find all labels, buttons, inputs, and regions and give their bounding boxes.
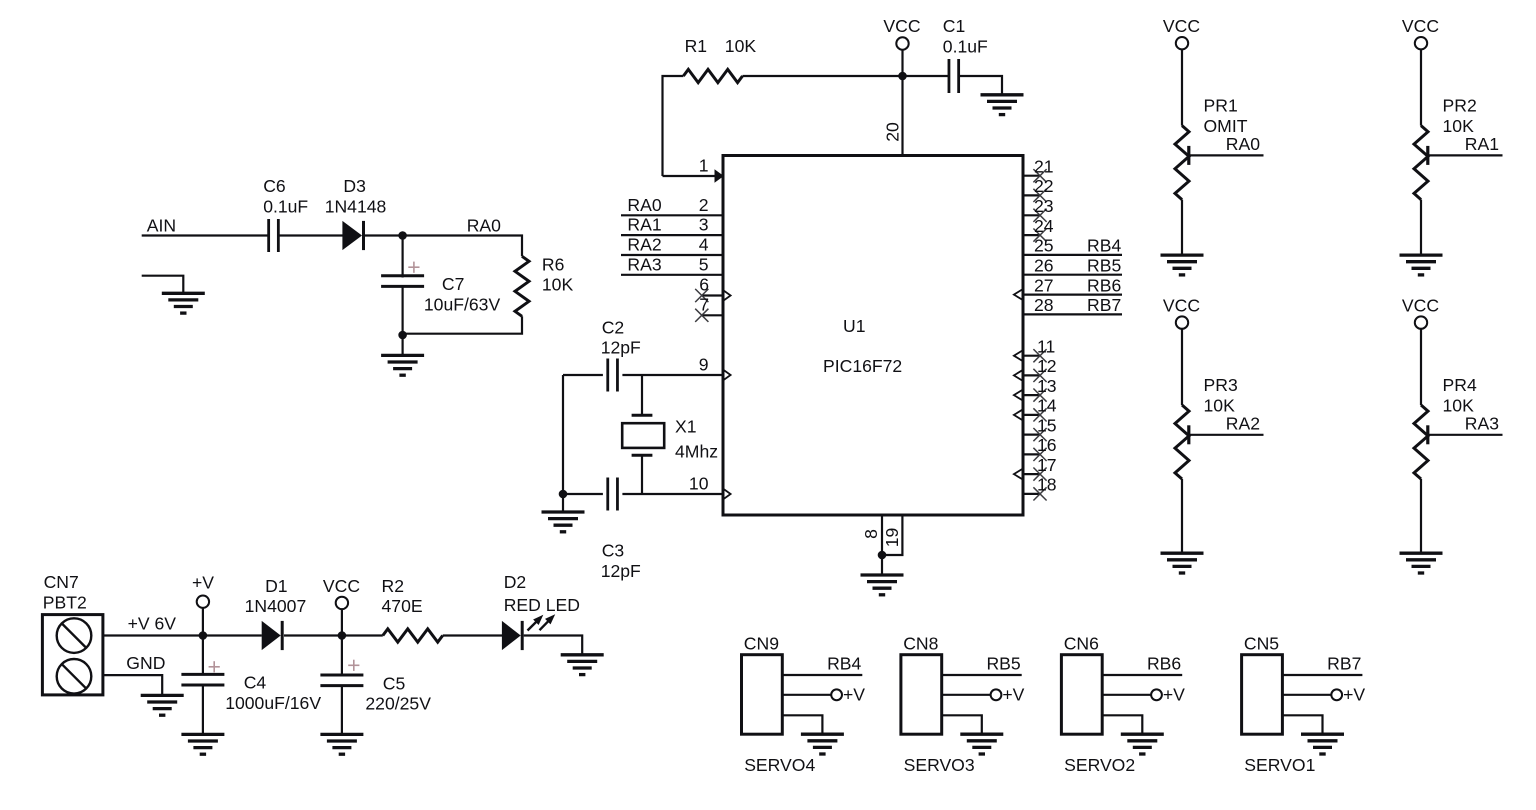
wire +V 6V xyxy=(103,634,262,636)
svg-text:10: 10 xyxy=(689,474,709,494)
wiper arrow PR3 xyxy=(1187,425,1190,444)
svg-text:VCC: VCC xyxy=(1163,296,1200,316)
svg-text:PBT2: PBT2 xyxy=(43,592,87,612)
wire pin 1 MCLR xyxy=(663,175,715,177)
wire pin 3 RA1 xyxy=(621,234,723,236)
svg-text:8: 8 xyxy=(861,529,881,539)
svg-text:20: 20 xyxy=(883,122,903,142)
svg-text:X1: X1 xyxy=(675,417,697,437)
svg-text:470E: 470E xyxy=(382,596,423,616)
terminal screw 2 xyxy=(57,659,92,694)
wire AIN ground stub xyxy=(142,276,184,294)
wire D2 to ground xyxy=(524,636,583,656)
no-connect X pin 7 xyxy=(695,309,708,322)
svg-text:D2: D2 xyxy=(504,572,527,592)
svg-text:25: 25 xyxy=(1034,236,1054,256)
capacitor C2 xyxy=(606,359,609,392)
pin 12 arrow xyxy=(1014,370,1023,380)
wire pin 4 RA2 xyxy=(621,254,723,256)
wire pin 19 ground xyxy=(882,515,902,555)
svg-text:1: 1 xyxy=(699,156,709,176)
wire VCC down to C5 xyxy=(341,636,343,676)
svg-text:RED LED: RED LED xyxy=(504,595,580,615)
wire ground CN9 xyxy=(782,715,822,734)
wire C6 to D3 xyxy=(279,234,343,236)
svg-text:5: 5 xyxy=(699,254,709,274)
junction C7 bottom xyxy=(398,331,407,340)
wire wiper RA2 xyxy=(1189,434,1264,436)
svg-text:PR1: PR1 xyxy=(1204,96,1238,116)
svg-text:+V: +V xyxy=(1343,684,1365,704)
pin 27 arrow xyxy=(1014,289,1023,299)
svg-text:PR2: PR2 xyxy=(1443,96,1477,116)
wire R2 to D2 xyxy=(443,634,503,636)
wire pin 13 no-connect xyxy=(1023,394,1040,396)
connector CN7 body xyxy=(42,615,103,695)
svg-text:C4: C4 xyxy=(244,673,267,693)
svg-text:RA0: RA0 xyxy=(467,215,501,235)
svg-text:7: 7 xyxy=(699,294,709,314)
potentiometer PR3 xyxy=(1175,405,1189,479)
wire pin 6 no-connect xyxy=(702,294,723,296)
power VCC symbol PR3 xyxy=(1176,316,1188,328)
potentiometer PR4 xyxy=(1414,405,1428,479)
diode D3 xyxy=(342,221,362,250)
op-chip U1 body PIC16F72 xyxy=(723,156,1023,516)
svg-text:VCC: VCC xyxy=(1163,16,1200,36)
wire pin 28 RB7 xyxy=(1023,313,1122,315)
junction VCC node xyxy=(338,631,347,640)
svg-text:0.1uF: 0.1uF xyxy=(263,196,308,216)
svg-text:RA3: RA3 xyxy=(1465,414,1499,434)
connector CN6 body xyxy=(1061,655,1102,735)
svg-text:+V: +V xyxy=(192,573,214,593)
wire pin 25 RB4 xyxy=(1023,254,1122,256)
svg-text:4Mhz: 4Mhz xyxy=(675,441,718,461)
wire pin 10 OSC2 xyxy=(563,493,603,495)
svg-text:1N4007: 1N4007 xyxy=(245,596,307,616)
power +V circle CN5 xyxy=(1331,689,1342,700)
wire rail to ground xyxy=(562,494,564,513)
junction VCC top xyxy=(898,72,907,81)
no-connect X pin 22 xyxy=(1033,189,1046,202)
no-connect X pin 13 xyxy=(1033,389,1046,402)
svg-text:19: 19 xyxy=(882,528,902,548)
svg-text:CN8: CN8 xyxy=(903,633,938,653)
terminal screw 1 xyxy=(57,618,92,653)
connector CN5 body xyxy=(1242,655,1283,735)
svg-text:4: 4 xyxy=(699,235,709,255)
no-connect X pin 24 xyxy=(1033,229,1046,242)
ground AIN stub xyxy=(162,293,205,313)
capacitor C3 xyxy=(606,478,609,511)
svg-text:21: 21 xyxy=(1034,157,1054,177)
wire pin 5 RA3 xyxy=(621,274,723,276)
capacitor C1 xyxy=(948,59,951,93)
svg-text:AIN: AIN xyxy=(147,215,176,235)
svg-text:17: 17 xyxy=(1037,455,1057,475)
svg-text:220/25V: 220/25V xyxy=(365,694,431,714)
wire MCLR loop left xyxy=(663,76,684,176)
svg-text:C3: C3 xyxy=(602,541,625,561)
wire wiper RA1 xyxy=(1428,154,1503,156)
no-connect X pin 14 xyxy=(1033,408,1046,421)
svg-text:SERVO4: SERVO4 xyxy=(744,755,815,775)
wire +V CN5 xyxy=(1282,694,1331,696)
svg-text:RA2: RA2 xyxy=(1226,414,1260,434)
power VCC symbol top xyxy=(896,37,908,49)
svg-text:11: 11 xyxy=(1037,337,1055,357)
no-connect X pin 11 xyxy=(1033,349,1046,362)
svg-text:PIC16F72: PIC16F72 xyxy=(823,356,902,376)
svg-text:C5: C5 xyxy=(383,673,406,693)
svg-text:RB7: RB7 xyxy=(1327,654,1361,674)
svg-text:SERVO1: SERVO1 xyxy=(1244,755,1315,775)
wiper arrow PR2 xyxy=(1426,146,1429,165)
svg-text:RB6: RB6 xyxy=(1147,654,1181,674)
svg-text:C6: C6 xyxy=(263,176,286,196)
svg-text:23: 23 xyxy=(1034,196,1054,216)
wire R6 bottom to junction xyxy=(403,316,522,333)
svg-text:D1: D1 xyxy=(265,576,288,596)
wire pin 8 ground xyxy=(881,515,883,555)
svg-text:RA2: RA2 xyxy=(627,235,661,255)
svg-text:12pF: 12pF xyxy=(601,561,641,581)
svg-text:1N4148: 1N4148 xyxy=(325,196,387,216)
power VCC symbol PR1 xyxy=(1176,37,1188,49)
svg-text:13: 13 xyxy=(1037,376,1057,396)
connector CN8 body xyxy=(901,655,942,735)
wire D1 to VCC node xyxy=(284,634,383,636)
wire VCC down to pin 20 xyxy=(901,76,903,156)
svg-text:18: 18 xyxy=(1037,475,1057,495)
svg-text:15: 15 xyxy=(1037,415,1057,435)
wire GND xyxy=(103,675,162,696)
pin 13 arrow xyxy=(1014,390,1023,400)
wire junction down to C7 xyxy=(402,236,404,278)
svg-text:RA0: RA0 xyxy=(627,195,661,215)
wire pin 12 no-connect xyxy=(1023,374,1040,376)
svg-text:RB7: RB7 xyxy=(1087,295,1121,315)
svg-text:PR4: PR4 xyxy=(1443,375,1477,395)
svg-text:24: 24 xyxy=(1034,216,1054,236)
svg-text:R6: R6 xyxy=(542,254,565,274)
svg-text:CN5: CN5 xyxy=(1244,633,1279,653)
resistor R6 xyxy=(515,256,529,316)
wire pin 2 RA0 xyxy=(621,214,723,216)
wire pin 26 RB5 xyxy=(1023,274,1122,276)
plus sign C7 xyxy=(408,262,419,273)
wire RB5 xyxy=(942,674,1022,676)
svg-text:12: 12 xyxy=(1037,356,1057,376)
svg-text:10K: 10K xyxy=(725,36,757,56)
connector CN9 body xyxy=(742,655,783,735)
ground C1 xyxy=(981,95,1024,115)
wire PR4 to ground xyxy=(1420,479,1422,554)
svg-text:RA0: RA0 xyxy=(1226,134,1260,154)
wire crystal left rail xyxy=(562,375,564,494)
diode D1 xyxy=(262,621,281,650)
ground PR1 xyxy=(1161,255,1204,275)
ground D2 xyxy=(561,655,604,675)
wiper arrow PR4 xyxy=(1426,425,1429,444)
wire D3 to R6 with RA0 net xyxy=(365,236,523,257)
no-connect X pin 16 xyxy=(1033,448,1046,461)
wire PR2 to ground xyxy=(1420,200,1422,256)
wiper arrow PR1 xyxy=(1187,146,1190,165)
ground CN7 xyxy=(141,695,184,715)
svg-text:RA1: RA1 xyxy=(1465,134,1499,154)
LED arrows xyxy=(528,615,544,631)
wire wiper RA3 xyxy=(1428,434,1503,436)
svg-text:RB6: RB6 xyxy=(1087,275,1121,295)
wire ground CN6 xyxy=(1102,715,1142,734)
potentiometer PR1 xyxy=(1175,126,1189,200)
resistor R2 xyxy=(383,629,443,642)
wire +V CN9 xyxy=(782,694,831,696)
no-connect X pin 21 xyxy=(1033,169,1046,182)
svg-text:RB5: RB5 xyxy=(986,654,1020,674)
power +V symbol xyxy=(197,596,209,608)
wire +V CN6 xyxy=(1102,694,1151,696)
svg-text:VCC: VCC xyxy=(1402,296,1439,316)
no-connect X pin 23 xyxy=(1033,209,1046,222)
svg-text:PR3: PR3 xyxy=(1204,375,1238,395)
wire RB6 xyxy=(1102,674,1182,676)
junction C7 top xyxy=(398,231,407,240)
power VCC symbol xyxy=(336,597,348,609)
svg-text:10K: 10K xyxy=(1443,395,1475,415)
svg-text:C1: C1 xyxy=(943,16,966,36)
pin 10 arrow xyxy=(724,489,731,499)
power +V circle CN8 xyxy=(991,689,1002,700)
svg-text:0.1uF: 0.1uF xyxy=(943,36,988,56)
wire pin 14 no-connect xyxy=(1023,414,1040,416)
wire pin 17 no-connect xyxy=(1023,473,1040,475)
svg-text:U1: U1 xyxy=(843,316,866,336)
wire C1 to ground xyxy=(959,76,1002,95)
svg-text:9: 9 xyxy=(699,355,709,375)
wire pin 9 OSC1 xyxy=(563,374,603,376)
ground PR2 xyxy=(1400,255,1443,275)
diode D2 LED xyxy=(502,621,521,650)
svg-text:RB4: RB4 xyxy=(827,654,861,674)
pin 1 input arrow xyxy=(715,169,724,182)
pin 11 arrow xyxy=(1014,351,1023,361)
svg-text:+V: +V xyxy=(843,684,865,704)
power VCC symbol PR4 xyxy=(1415,316,1427,328)
svg-text:10K: 10K xyxy=(1443,116,1475,136)
svg-text:CN6: CN6 xyxy=(1064,633,1099,653)
svg-text:3: 3 xyxy=(699,215,709,235)
pin 14 arrow xyxy=(1014,410,1023,420)
ground CN8 xyxy=(960,734,1003,754)
svg-text:GND: GND xyxy=(126,653,165,673)
wire +V CN8 xyxy=(942,694,991,696)
svg-text:RB4: RB4 xyxy=(1087,236,1121,256)
svg-text:28: 28 xyxy=(1034,295,1054,315)
svg-text:1000uF/16V: 1000uF/16V xyxy=(225,693,321,713)
svg-text:CN9: CN9 xyxy=(744,633,779,653)
resistor R1 xyxy=(683,69,742,82)
wire C4 to ground xyxy=(202,685,204,735)
ground CN6 xyxy=(1121,734,1164,754)
svg-text:VCC: VCC xyxy=(1402,16,1439,36)
ground U1 vss xyxy=(861,575,904,595)
ground below C7 xyxy=(381,355,424,375)
wire ground CN8 xyxy=(942,715,982,734)
pin 9 arrow xyxy=(724,370,731,380)
svg-text:R2: R2 xyxy=(382,576,405,596)
svg-text:D3: D3 xyxy=(343,176,366,196)
wire PR1 to ground xyxy=(1181,200,1183,256)
pin 6 arrow xyxy=(724,291,731,301)
svg-text:26: 26 xyxy=(1034,256,1054,276)
wire pin 21 no-connect xyxy=(1023,175,1040,177)
svg-text:10K: 10K xyxy=(1204,395,1236,415)
ground C5 xyxy=(320,734,363,754)
svg-text:OMIT: OMIT xyxy=(1204,116,1248,136)
wire RB7 xyxy=(1282,674,1362,676)
wire ground CN5 xyxy=(1282,715,1322,734)
svg-text:12pF: 12pF xyxy=(601,338,641,358)
svg-text:27: 27 xyxy=(1034,275,1054,295)
junction crystal rail xyxy=(559,490,568,499)
wire C7 to ground junction xyxy=(402,286,404,356)
junction pins 8-19 xyxy=(878,551,887,560)
wire pin 11 no-connect xyxy=(1023,355,1040,357)
ground CN5 xyxy=(1301,734,1344,754)
wire R1 to VCC node xyxy=(743,75,950,77)
svg-text:C2: C2 xyxy=(602,317,625,337)
svg-text:C7: C7 xyxy=(442,274,465,294)
crystal X1 xyxy=(641,375,643,415)
svg-text:CN7: CN7 xyxy=(44,572,79,592)
svg-text:+V: +V xyxy=(1002,684,1024,704)
svg-text:16: 16 xyxy=(1037,435,1057,455)
svg-text:R1: R1 xyxy=(685,36,708,56)
wire pin 15 no-connect xyxy=(1023,434,1040,436)
plus sign C5 xyxy=(348,660,359,671)
ground C4 xyxy=(181,734,224,754)
svg-text:+V 6V: +V 6V xyxy=(128,614,177,634)
wire RB4 xyxy=(782,674,862,676)
svg-text:6: 6 xyxy=(699,275,709,295)
svg-text:SERVO3: SERVO3 xyxy=(904,755,975,775)
no-connect X pin 6 xyxy=(695,289,708,302)
wire pin 24 no-connect xyxy=(1023,234,1040,236)
wire to ground pin 8 xyxy=(881,555,883,576)
power +V circle CN6 xyxy=(1151,689,1162,700)
wire pin 27 RB6 xyxy=(1023,294,1122,296)
power VCC symbol PR2 xyxy=(1415,37,1427,49)
svg-text:RA3: RA3 xyxy=(627,254,661,274)
svg-text:SERVO2: SERVO2 xyxy=(1064,755,1135,775)
wire +V down to C4 xyxy=(202,636,204,675)
wire PR3 to ground xyxy=(1181,479,1183,554)
wire pin 16 no-connect xyxy=(1023,453,1040,455)
capacitor C6 xyxy=(267,219,270,252)
svg-text:22: 22 xyxy=(1034,176,1054,196)
svg-text:VCC: VCC xyxy=(323,576,360,596)
svg-text:RA1: RA1 xyxy=(627,215,661,235)
node AIN wire xyxy=(142,234,269,236)
capacitor C4 electrolytic xyxy=(181,673,224,676)
wire pin 7 no-connect xyxy=(702,314,723,316)
svg-text:+V: +V xyxy=(1163,684,1185,704)
capacitor C5 electrolytic xyxy=(320,674,363,677)
svg-text:2: 2 xyxy=(699,195,709,215)
plus sign C4 xyxy=(209,661,220,672)
no-connect X pin 12 xyxy=(1033,369,1046,382)
no-connect X pin 15 xyxy=(1033,428,1046,441)
wire pin 23 no-connect xyxy=(1023,214,1040,216)
svg-text:10K: 10K xyxy=(542,275,574,295)
svg-text:10uF/63V: 10uF/63V xyxy=(424,294,501,314)
wire C5 to ground xyxy=(341,686,343,735)
wire pin 22 no-connect xyxy=(1023,194,1040,196)
ground PR4 xyxy=(1400,553,1443,573)
svg-text:RB5: RB5 xyxy=(1087,256,1121,276)
junction +V node xyxy=(199,631,208,640)
ground CN9 xyxy=(801,734,844,754)
no-connect X pin 18 xyxy=(1033,487,1046,500)
ground PR3 xyxy=(1161,553,1204,573)
ground crystal rail xyxy=(542,512,585,532)
potentiometer PR2 xyxy=(1414,126,1428,200)
svg-text:VCC: VCC xyxy=(883,16,920,36)
power +V circle CN9 xyxy=(831,689,842,700)
no-connect X pin 17 xyxy=(1033,468,1046,481)
wire wiper RA0 xyxy=(1189,154,1264,156)
svg-text:14: 14 xyxy=(1037,396,1057,416)
wire pin 18 no-connect xyxy=(1023,493,1040,495)
pin 17 arrow xyxy=(1014,469,1023,479)
capacitor C7 electrolytic xyxy=(381,274,424,277)
